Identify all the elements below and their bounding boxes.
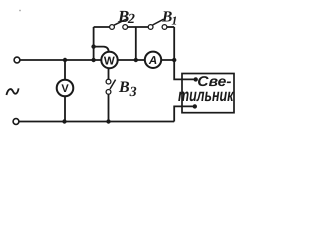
svg-text:A: A — [148, 55, 157, 67]
svg-text:W: W — [104, 55, 115, 67]
svg-text:V: V — [61, 83, 69, 95]
svg-text:тильник: тильник — [178, 85, 234, 105]
